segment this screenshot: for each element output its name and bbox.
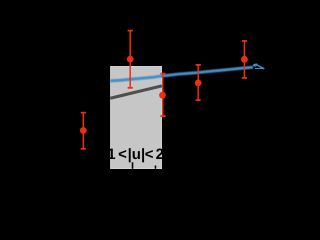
blue model line xyxy=(110,67,253,81)
x-axis minor tick xyxy=(155,166,157,169)
blue line lower fork horizontal xyxy=(255,67,264,70)
shaded band 1<|u|<2 xyxy=(111,66,162,168)
blue line lower fork diagonal xyxy=(258,65,265,68)
blue line upper fork tip xyxy=(253,64,257,66)
gray model line xyxy=(110,86,162,98)
data point 3 error bar xyxy=(160,74,165,117)
data point 2 marker xyxy=(127,56,134,63)
data point 5 marker xyxy=(241,56,248,63)
band label text xyxy=(107,146,164,163)
data point 2 error bar xyxy=(128,31,133,88)
data point 1 marker xyxy=(80,127,87,134)
data point 4 error bar xyxy=(196,65,201,100)
x-axis major tick xyxy=(132,162,134,169)
data point 1 error bar xyxy=(81,113,86,149)
data point 3 marker xyxy=(159,92,166,99)
data point 4 marker xyxy=(195,80,202,87)
data point 5 error bar xyxy=(242,41,247,78)
